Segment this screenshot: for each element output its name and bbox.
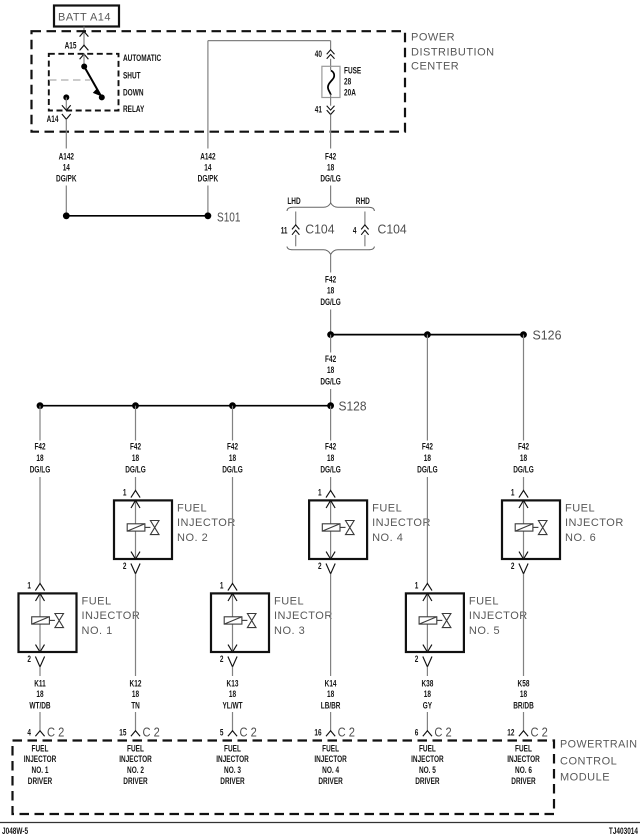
svg-text:DG/LG: DG/LG xyxy=(30,465,51,476)
svg-text:18: 18 xyxy=(229,453,236,464)
svg-text:NO. 2: NO. 2 xyxy=(127,765,144,776)
svg-text:INJECTOR: INJECTOR xyxy=(565,517,624,529)
svg-text:18: 18 xyxy=(327,163,334,174)
svg-text:18: 18 xyxy=(327,365,334,376)
svg-text:FUEL: FUEL xyxy=(322,744,339,755)
svg-text:F42: F42 xyxy=(227,442,238,453)
svg-text:DG/LG: DG/LG xyxy=(222,465,243,476)
connector C2 fork column 3 xyxy=(228,731,237,736)
svg-text:2: 2 xyxy=(220,654,224,665)
svg-text:DRIVER: DRIVER xyxy=(511,776,535,787)
svg-text:F42: F42 xyxy=(34,442,45,453)
svg-text:F42: F42 xyxy=(325,152,336,163)
svg-text:DRIVER: DRIVER xyxy=(415,776,439,787)
wire K drop column 2 xyxy=(135,574,137,676)
svg-text:2: 2 xyxy=(511,561,515,572)
powertrain control module dashed box xyxy=(13,741,555,815)
svg-text:CENTER: CENTER xyxy=(411,61,459,73)
svg-text:18: 18 xyxy=(132,689,139,700)
wire F42 drop column 1 xyxy=(39,406,41,441)
relay name label xyxy=(123,53,161,115)
wire K to PCM column 3 xyxy=(232,712,234,731)
svg-text:INJECTOR: INJECTOR xyxy=(314,754,347,765)
fuse cavity 41 double chevron xyxy=(327,106,335,115)
svg-text:18: 18 xyxy=(36,453,43,464)
wire corner down to fuse cavity 40 xyxy=(330,41,332,50)
svg-text:MODULE: MODULE xyxy=(560,771,610,783)
svg-text:DG/LG: DG/LG xyxy=(320,174,341,185)
svg-text:S128: S128 xyxy=(339,399,367,413)
svg-text:5: 5 xyxy=(220,728,224,739)
injector 5 pin 2 connector fork xyxy=(423,657,432,667)
svg-text:NO. 2: NO. 2 xyxy=(177,532,208,544)
svg-text:FUSE: FUSE xyxy=(344,66,361,77)
svg-text:F42: F42 xyxy=(325,354,336,365)
svg-text:F42: F42 xyxy=(325,442,336,453)
svg-text:2: 2 xyxy=(27,654,31,665)
injector 2 pin 2 connector fork xyxy=(131,564,140,574)
svg-text:DG/LG: DG/LG xyxy=(320,377,341,388)
PCM internal label: fuel injector no. 3 driver xyxy=(216,744,249,787)
connector A14 fork xyxy=(62,114,71,119)
RHD branch wire upper xyxy=(364,212,366,225)
wire K to PCM column 4 xyxy=(330,712,332,731)
svg-text:F42: F42 xyxy=(130,442,141,453)
injector 4 pin 2 connector fork xyxy=(326,564,335,574)
svg-text:DG/LG: DG/LG xyxy=(125,465,146,476)
svg-text:18: 18 xyxy=(327,453,334,464)
wire K drop column 3 xyxy=(232,667,234,676)
svg-text:F42: F42 xyxy=(325,275,336,286)
wire F42 to C104 brace xyxy=(330,186,332,204)
fuel injector no. 5 box xyxy=(406,593,464,652)
svg-text:K58: K58 xyxy=(518,678,530,689)
svg-text:FUEL: FUEL xyxy=(372,502,402,514)
svg-text:TN: TN xyxy=(131,701,140,712)
connector C2 fork column 1 xyxy=(35,731,44,736)
svg-text:18: 18 xyxy=(424,689,431,700)
svg-text:FUEL: FUEL xyxy=(32,744,49,755)
connector C104 LHD double chevron xyxy=(292,225,299,235)
svg-text:FUEL: FUEL xyxy=(274,595,304,607)
svg-text:INJECTOR: INJECTOR xyxy=(274,610,333,622)
svg-text:DRIVER: DRIVER xyxy=(318,776,342,787)
svg-text:1: 1 xyxy=(415,580,419,591)
svg-text:20A: 20A xyxy=(344,88,356,99)
svg-text:INJECTOR: INJECTOR xyxy=(372,517,431,529)
PCM internal label: fuel injector no. 6 driver xyxy=(507,744,540,787)
svg-text:FUEL: FUEL xyxy=(469,595,499,607)
svg-text:INJECTOR: INJECTOR xyxy=(119,754,152,765)
bottom brace merge xyxy=(287,247,374,255)
fuel injector no. 4 name label xyxy=(372,502,431,544)
svg-text:RELAY: RELAY xyxy=(123,104,145,115)
svg-text:C104: C104 xyxy=(305,222,334,236)
LHD branch wire lower xyxy=(295,235,297,246)
connector A15: arrow at PDC border and fork at wire end xyxy=(80,31,89,50)
PCM internal label: fuel injector no. 2 driver xyxy=(119,744,152,787)
powertrain control module label xyxy=(560,739,638,784)
relay switch blade diagonal with arrowhead xyxy=(84,67,102,98)
svg-text:C 2: C 2 xyxy=(531,725,548,739)
LHD branch wire upper xyxy=(295,212,297,225)
svg-text:18: 18 xyxy=(424,453,431,464)
fuel injector no. 6 box xyxy=(502,500,560,559)
power distribution center label xyxy=(411,32,495,73)
svg-text:6: 6 xyxy=(415,728,419,739)
svg-text:18: 18 xyxy=(36,689,43,700)
wire F42 to injector 4 xyxy=(330,477,332,490)
svg-text:LHD: LHD xyxy=(287,196,300,207)
svg-text:18: 18 xyxy=(520,689,527,700)
svg-text:2: 2 xyxy=(415,654,419,665)
svg-text:K13: K13 xyxy=(227,678,239,689)
svg-text:INJECTOR: INJECTOR xyxy=(411,754,444,765)
wire F42 drop column 3 xyxy=(232,406,234,441)
svg-text:1: 1 xyxy=(27,580,31,591)
splice S128 bus xyxy=(37,402,334,409)
battery feed box BATT A14 xyxy=(54,6,119,27)
svg-text:NO. 5: NO. 5 xyxy=(419,765,436,776)
wire F42 drop column 6 xyxy=(523,335,525,441)
wire from contact to relay border xyxy=(65,97,67,110)
svg-text:18: 18 xyxy=(327,286,334,297)
svg-text:40: 40 xyxy=(315,49,322,60)
svg-text:SHUT: SHUT xyxy=(123,70,141,81)
wire into relay xyxy=(83,54,85,66)
wire F42 below C104 xyxy=(330,254,332,272)
svg-text:C 2: C 2 xyxy=(47,725,64,739)
injector 1 pin 2 connector fork xyxy=(35,657,44,667)
svg-text:K14: K14 xyxy=(325,678,337,689)
svg-text:FUEL: FUEL xyxy=(177,502,207,514)
svg-text:1: 1 xyxy=(318,487,322,498)
wire F42 S126 to label xyxy=(330,335,332,353)
svg-text:S126: S126 xyxy=(533,328,562,342)
svg-text:F42: F42 xyxy=(518,442,529,453)
wire F42 to injector 6 xyxy=(523,477,525,490)
svg-text:A14: A14 xyxy=(47,114,59,125)
svg-text:14: 14 xyxy=(204,163,212,174)
svg-text:POWERTRAIN: POWERTRAIN xyxy=(560,739,638,751)
injector 3 pin 2 connector fork xyxy=(228,657,237,667)
svg-text:A142: A142 xyxy=(59,152,74,163)
svg-text:NO. 4: NO. 4 xyxy=(372,532,403,544)
fuse cavity 40 double chevron xyxy=(327,50,335,59)
RHD branch wire lower xyxy=(364,235,366,246)
svg-text:14: 14 xyxy=(63,163,71,174)
wire F42 drop column 5 xyxy=(426,335,428,441)
injector 5 pin 1 connector fork xyxy=(423,583,432,590)
svg-text:NO. 1: NO. 1 xyxy=(82,625,113,637)
wire F42 to injector 3 xyxy=(232,477,234,583)
connector C104 RHD double chevron xyxy=(361,225,368,235)
wire K drop column 1 xyxy=(39,667,41,676)
svg-text:INJECTOR: INJECTOR xyxy=(469,610,528,622)
svg-text:NO. 3: NO. 3 xyxy=(224,765,241,776)
fuel injector no. 3 name label xyxy=(274,595,333,637)
wire F42 drop column 2 xyxy=(135,406,137,441)
PCM internal label: fuel injector no. 4 driver xyxy=(314,744,347,787)
PCM internal label: fuel injector no. 5 driver xyxy=(411,744,444,787)
injector 3 pin 1 connector fork xyxy=(228,583,237,590)
svg-text:DISTRIBUTION: DISTRIBUTION xyxy=(411,46,495,58)
wire F42 to injector 5 xyxy=(426,477,428,583)
svg-text:12: 12 xyxy=(507,728,514,739)
fuse value label xyxy=(344,66,361,99)
splice S126 bus xyxy=(327,331,527,338)
wire F42 drop column 4 xyxy=(330,406,332,441)
svg-text:DRIVER: DRIVER xyxy=(220,776,244,787)
connector C2 fork column 4 xyxy=(326,731,335,736)
svg-text:GY: GY xyxy=(423,701,433,712)
wire A142 right lower segment xyxy=(207,186,209,213)
wire F42 to injector 1 xyxy=(39,477,41,583)
svg-text:INJECTOR: INJECTOR xyxy=(24,754,57,765)
svg-text:CONTROL: CONTROL xyxy=(560,756,617,768)
svg-text:AUTOMATIC: AUTOMATIC xyxy=(123,53,161,64)
svg-text:DG/LG: DG/LG xyxy=(417,465,438,476)
fuel injector no. 5 name label xyxy=(469,595,528,637)
svg-text:1: 1 xyxy=(220,580,224,591)
connector C2 fork column 6 xyxy=(519,731,528,736)
footer rule xyxy=(0,822,640,824)
svg-text:DRIVER: DRIVER xyxy=(123,776,147,787)
injector 6 pin 2 connector fork xyxy=(519,564,528,574)
wire F42 to S128 xyxy=(330,389,332,406)
fuel injector no. 1 box xyxy=(19,593,77,652)
svg-text:18: 18 xyxy=(229,689,236,700)
svg-text:YL/WT: YL/WT xyxy=(222,701,242,712)
svg-text:A15: A15 xyxy=(65,40,77,51)
svg-text:POWER: POWER xyxy=(411,32,455,44)
svg-text:NO. 3: NO. 3 xyxy=(274,625,305,637)
wire from BATT A14 to PDC xyxy=(83,27,85,46)
svg-text:DG/LG: DG/LG xyxy=(513,465,534,476)
fuel injector no. 3 box xyxy=(211,593,269,652)
svg-text:1: 1 xyxy=(123,487,127,498)
wire K drop column 5 xyxy=(426,667,428,676)
svg-text:FUEL: FUEL xyxy=(515,744,532,755)
wire F42 out of PDC xyxy=(330,115,332,149)
svg-text:WT/DB: WT/DB xyxy=(29,701,50,712)
wire A142 left lower segment xyxy=(65,186,67,213)
svg-text:RHD: RHD xyxy=(356,196,370,207)
svg-text:18: 18 xyxy=(327,689,334,700)
injector 2 pin 1 connector fork xyxy=(131,490,140,497)
injector 6 pin 1 connector fork xyxy=(519,490,528,497)
connector C2 fork column 2 xyxy=(131,731,140,736)
fuel injector no. 2 box xyxy=(114,500,172,559)
svg-text:FUEL: FUEL xyxy=(419,744,436,755)
fuel injector no. 2 name label xyxy=(177,502,236,544)
wire F42 to S126 xyxy=(330,310,332,335)
svg-text:4: 4 xyxy=(27,728,31,739)
svg-text:FUEL: FUEL xyxy=(224,744,241,755)
relay switch common node dot xyxy=(81,64,87,70)
relay output contact dot xyxy=(63,94,69,100)
svg-text:C104: C104 xyxy=(378,222,407,236)
svg-text:K11: K11 xyxy=(34,678,46,689)
wire K drop column 6 xyxy=(523,574,525,676)
wire inside PDC feeding fuse, L shape xyxy=(207,41,209,149)
svg-text:C 2: C 2 xyxy=(434,725,451,739)
svg-text:J048W-5: J048W-5 xyxy=(2,826,29,837)
svg-text:DG/PK: DG/PK xyxy=(56,174,77,185)
svg-text:INJECTOR: INJECTOR xyxy=(216,754,249,765)
svg-text:DRIVER: DRIVER xyxy=(28,776,52,787)
wire chevron to fuse xyxy=(330,59,332,71)
svg-text:16: 16 xyxy=(314,728,321,739)
svg-text:DG/LG: DG/LG xyxy=(320,465,341,476)
svg-text:INJECTOR: INJECTOR xyxy=(177,517,236,529)
fuel injector no. 4 box xyxy=(309,500,367,559)
top brace split xyxy=(287,203,374,211)
svg-text:15: 15 xyxy=(119,728,127,739)
svg-text:DG/LG: DG/LG xyxy=(320,297,341,308)
svg-text:C 2: C 2 xyxy=(143,725,160,739)
svg-text:BR/DB: BR/DB xyxy=(513,701,534,712)
power distribution center dashed box xyxy=(32,31,406,132)
svg-text:S101: S101 xyxy=(217,210,241,224)
svg-text:A142: A142 xyxy=(200,152,215,163)
svg-text:NO. 6: NO. 6 xyxy=(565,532,596,544)
wire F42 to injector 2 xyxy=(135,477,137,490)
svg-text:K12: K12 xyxy=(130,678,142,689)
svg-text:TJ403014: TJ403014 xyxy=(609,826,639,837)
wire K to PCM column 1 xyxy=(39,712,41,731)
svg-text:2: 2 xyxy=(318,561,322,572)
svg-text:NO. 5: NO. 5 xyxy=(469,625,500,637)
svg-text:BATT A14: BATT A14 xyxy=(58,12,111,24)
PCM internal label: fuel injector no. 1 driver xyxy=(24,744,57,787)
injector 4 pin 1 connector fork xyxy=(326,490,335,497)
injector 1 pin 1 connector fork xyxy=(35,583,44,590)
svg-text:LB/BR: LB/BR xyxy=(321,701,341,712)
svg-text:28: 28 xyxy=(344,77,351,88)
fuel injector no. 6 name label xyxy=(565,502,624,544)
svg-text:INJECTOR: INJECTOR xyxy=(82,610,141,622)
svg-text:DOWN: DOWN xyxy=(123,88,144,99)
splice S101 xyxy=(63,212,211,219)
connector A14 arrow at relay border xyxy=(62,105,71,110)
svg-text:18: 18 xyxy=(132,453,139,464)
relay coil divider dashed line xyxy=(49,79,90,81)
wire fuse to cavity 41 xyxy=(330,94,332,105)
svg-text:2: 2 xyxy=(123,561,127,572)
wire K to PCM column 5 xyxy=(426,712,428,731)
svg-text:NO. 6: NO. 6 xyxy=(515,765,532,776)
wire K to PCM column 6 xyxy=(523,712,525,731)
svg-text:1: 1 xyxy=(511,487,515,498)
connector C2 fork column 5 xyxy=(423,731,432,736)
svg-text:FUEL: FUEL xyxy=(565,502,595,514)
svg-text:INJECTOR: INJECTOR xyxy=(507,754,540,765)
wire K drop column 4 xyxy=(330,574,332,676)
svg-text:F42: F42 xyxy=(422,442,433,453)
svg-text:18: 18 xyxy=(520,453,527,464)
svg-text:NO. 4: NO. 4 xyxy=(322,765,339,776)
svg-text:C 2: C 2 xyxy=(338,725,355,739)
svg-text:4: 4 xyxy=(353,226,357,237)
svg-text:NO. 1: NO. 1 xyxy=(32,765,49,776)
wire A142 left segment through PDC border xyxy=(65,119,67,148)
svg-text:41: 41 xyxy=(315,105,323,116)
svg-text:K38: K38 xyxy=(421,678,433,689)
relay pin arrow at top border xyxy=(80,54,89,59)
svg-text:DG/PK: DG/PK xyxy=(198,174,219,185)
wire K to PCM column 2 xyxy=(135,712,137,731)
svg-text:11: 11 xyxy=(281,226,288,237)
fuel injector no. 1 name label xyxy=(82,595,141,637)
svg-text:FUEL: FUEL xyxy=(82,595,112,607)
svg-text:C 2: C 2 xyxy=(240,725,257,739)
automatic shut down relay dashed box xyxy=(49,54,119,111)
svg-text:FUEL: FUEL xyxy=(127,744,144,755)
fuse 28 body xyxy=(322,66,340,97)
relay switch contact dot xyxy=(99,94,105,100)
